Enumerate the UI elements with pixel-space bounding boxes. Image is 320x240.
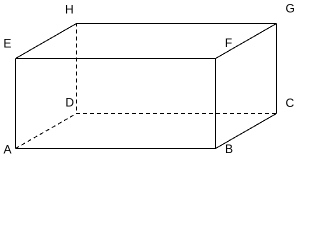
svg-text:F: F — [225, 36, 232, 50]
wire edge DH hidden (dashed left back vertical) — [76, 24, 78, 114]
svg-text:C: C — [286, 96, 295, 110]
wire edge AD hidden (dashed) — [16, 114, 77, 149]
svg-text:G: G — [286, 2, 295, 16]
wire edge HG (top back) — [76, 23, 277, 25]
wire edge AB (bottom front) — [16, 148, 216, 150]
wire edge AE (left front vertical) — [15, 59, 17, 149]
wire edge DC hidden (dashed bottom back) — [76, 113, 277, 115]
wire edge BC (bottom right depth) — [216, 114, 277, 149]
wire edge EF (top front) — [16, 58, 216, 60]
svg-text:D: D — [65, 96, 74, 110]
wire edge CG (right back vertical) — [276, 24, 278, 114]
svg-text:H: H — [65, 3, 74, 17]
svg-text:A: A — [4, 143, 12, 157]
wire edge FG (top right depth) — [216, 24, 277, 59]
svg-text:B: B — [225, 142, 233, 156]
wire edge BF (right front vertical) — [215, 59, 217, 149]
svg-text:E: E — [3, 37, 11, 51]
wire edge EH (top left depth) — [16, 24, 77, 59]
